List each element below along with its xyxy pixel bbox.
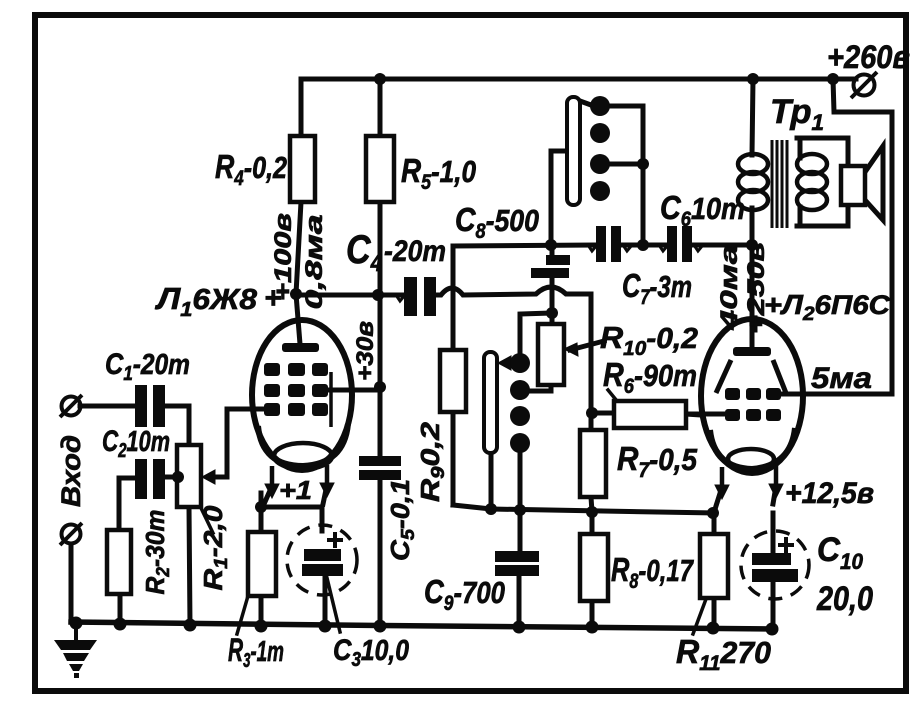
svg-text:C310,0: C310,0	[333, 634, 409, 671]
svg-text:+12,5в: +12,5в	[785, 477, 874, 510]
svg-text:R90,2: R90,2	[415, 421, 448, 502]
svg-text:Вход: Вход	[56, 435, 86, 507]
svg-text:C7-3т: C7-3т	[622, 267, 692, 309]
svg-text:R2-30т: R2-30т	[140, 510, 173, 595]
svg-text:Л16Ж8: Л16Ж8	[155, 281, 258, 321]
svg-text:R7-0,5: R7-0,5	[617, 440, 698, 482]
svg-text:40ма: 40ма	[716, 245, 743, 331]
svg-text:R5-1,0: R5-1,0	[401, 152, 476, 194]
svg-text:+30в: +30в	[352, 321, 379, 381]
svg-text:+260в: +260в	[827, 39, 910, 75]
svg-text:0,8ма: 0,8ма	[301, 215, 328, 310]
svg-text:+Л26П6С: +Л26П6С	[764, 289, 891, 325]
svg-text:+250в: +250в	[743, 242, 770, 334]
svg-text:R4-0,2: R4-0,2	[215, 148, 287, 190]
svg-text:C5-0,1: C5-0,1	[385, 479, 418, 561]
svg-text:C9-700: C9-700	[424, 573, 505, 615]
svg-text:C210т: C210т	[102, 425, 170, 462]
svg-text:R3-1т: R3-1т	[228, 632, 284, 672]
svg-text:R10-0,2: R10-0,2	[600, 320, 698, 360]
svg-text:R11270: R11270	[676, 633, 771, 675]
svg-text:R8-0,17: R8-0,17	[611, 551, 694, 593]
svg-text:C1-20т: C1-20т	[105, 348, 190, 385]
svg-text:+1: +1	[279, 475, 312, 505]
svg-text:5ма: 5ма	[811, 362, 872, 395]
svg-text:20,0: 20,0	[816, 580, 873, 618]
svg-text:R1-2,0: R1-2,0	[198, 505, 231, 591]
svg-text:R6-90т: R6-90т	[603, 356, 697, 398]
svg-text:C8-500: C8-500	[455, 201, 539, 243]
svg-text:C610т: C610т	[660, 189, 745, 231]
svg-text:+100в: +100в	[270, 213, 297, 301]
svg-text:-20т: -20т	[384, 235, 446, 268]
